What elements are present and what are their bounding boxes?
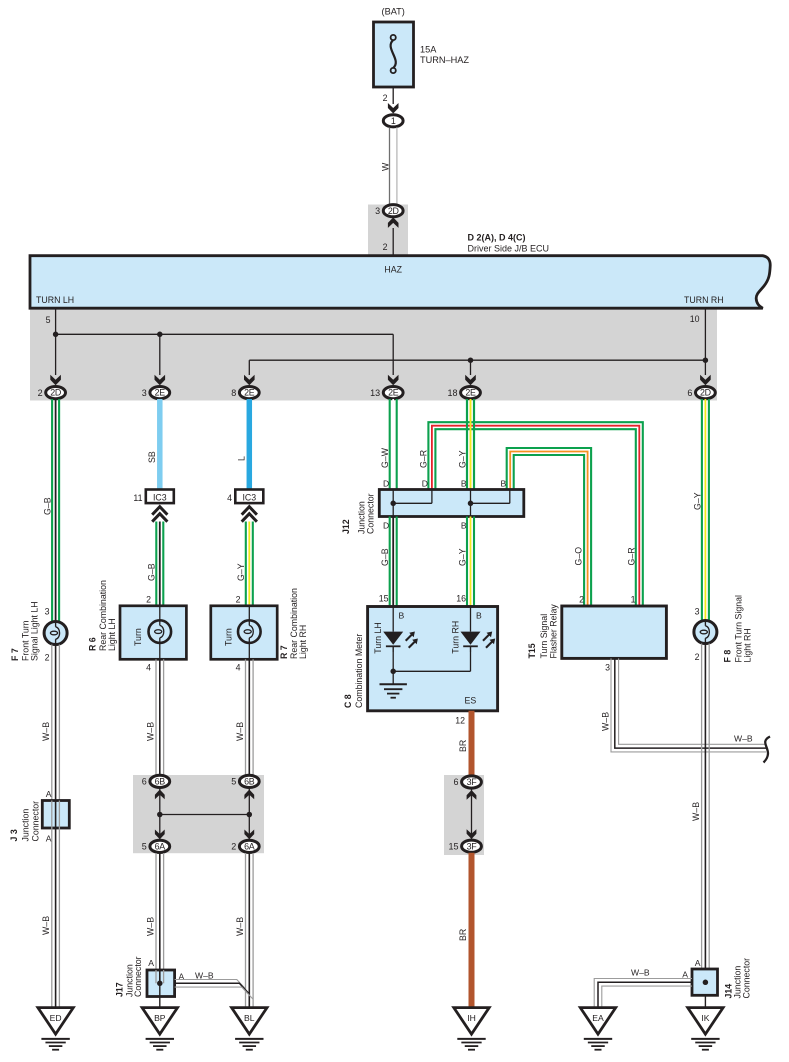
svg-text:Connector: Connector — [30, 801, 40, 842]
svg-text:W–B: W–B — [146, 722, 156, 741]
pin 10 label (TURN RH) — [690, 314, 700, 324]
svg-text:2E: 2E — [465, 388, 476, 398]
wire W-B (6A to J17) — [156, 853, 164, 970]
arrow into connector row — [155, 375, 166, 386]
svg-text:Light LH: Light LH — [107, 618, 117, 651]
connector oval 2D (pin 3) — [375, 205, 403, 217]
wire W (connector 1 to 2D) — [390, 127, 397, 204]
junction connector J14 box — [692, 969, 718, 995]
svg-text:11: 11 — [133, 493, 142, 503]
J12 designator — [341, 493, 376, 534]
wire G-Y (col5 upper) — [467, 399, 474, 490]
connector oval 2E (pin 3) — [142, 387, 170, 399]
svg-text:G–Y: G–Y — [236, 563, 246, 581]
wire 3F-3F — [471, 789, 473, 840]
svg-text:ED: ED — [50, 1013, 62, 1023]
svg-text:2D: 2D — [50, 388, 61, 398]
svg-text:2D: 2D — [388, 206, 399, 216]
wire label G-R (upper) — [419, 450, 429, 468]
svg-text:IH: IH — [467, 1013, 476, 1023]
wire W-B into J17 — [156, 970, 164, 983]
svg-text:TURN LH: TURN LH — [36, 295, 74, 305]
wire G-Y (col3 lower) — [246, 522, 253, 607]
wire TURN LH pin 5 down — [55, 308, 57, 334]
connector oval 3F (pin 6) — [453, 776, 481, 788]
svg-text:6A: 6A — [244, 842, 255, 852]
pin 11 label — [133, 493, 142, 503]
F7 designator — [10, 601, 40, 661]
gray panel (2D connector) — [368, 205, 408, 256]
wire label W-B (relay vertical) — [601, 712, 611, 731]
wire TURN LH horizontal bus — [56, 333, 394, 335]
J3 designator — [9, 801, 40, 842]
gray panel (6B/6A connectors) — [133, 775, 264, 853]
gray band (J/B internal wiring) — [30, 308, 717, 401]
svg-text:10: 10 — [690, 314, 700, 324]
label Turn LH — [373, 622, 383, 653]
pin 4 label (R6) — [146, 663, 151, 673]
svg-text:BR: BR — [458, 740, 468, 752]
wire W-B (J14 to EA) — [594, 979, 692, 1008]
junction connector J3 box — [42, 801, 69, 829]
wire branch to 2E (col5) — [470, 360, 472, 375]
svg-text:2E: 2E — [244, 388, 255, 398]
J17 internal node — [157, 981, 163, 987]
svg-text:Light RH: Light RH — [743, 628, 753, 662]
svg-text:R 6: R 6 — [88, 637, 98, 651]
svg-text:6: 6 — [687, 388, 692, 398]
C8 internal node — [390, 669, 396, 675]
wire W-B (R6 to 6B) — [156, 659, 164, 775]
ground EA — [580, 1008, 615, 1050]
J14 designator — [724, 958, 752, 999]
svg-text:3: 3 — [45, 607, 50, 617]
svg-text:4: 4 — [146, 663, 151, 673]
svg-text:A: A — [148, 958, 154, 968]
svg-text:D: D — [383, 479, 389, 489]
connector oval 6B (pin 6) — [142, 775, 170, 787]
svg-text:R 7: R 7 — [279, 645, 289, 659]
svg-text:G–R: G–R — [419, 450, 429, 468]
wire label G-Y (col5 lower) — [458, 548, 468, 566]
R7 bulb Turn — [238, 606, 261, 660]
wire SB (col2) — [157, 399, 163, 490]
svg-text:G–W: G–W — [380, 447, 390, 468]
svg-text:IC3: IC3 — [153, 492, 167, 502]
svg-text:12: 12 — [455, 716, 465, 726]
connector IC3 (pin 11) — [146, 490, 174, 504]
label ES — [465, 696, 477, 706]
pin A label (J3 bottom) — [46, 834, 52, 844]
svg-text:6B: 6B — [155, 777, 166, 787]
J12 internal node D — [390, 501, 396, 507]
svg-text:6B: 6B — [244, 777, 255, 787]
wire W-B (6A to BL) — [246, 853, 254, 1008]
ground BP — [142, 1008, 177, 1050]
wire 2D to J/B box — [392, 228, 394, 256]
svg-text:C 8: C 8 — [343, 694, 353, 708]
arrow up into 6B (right) — [244, 790, 254, 800]
ground ED — [38, 1008, 73, 1050]
junction connector J12 box — [379, 490, 524, 517]
wire W-B (J3 through to ED) — [52, 801, 60, 1008]
svg-text:F 8: F 8 — [723, 650, 733, 663]
connector IC3 (pin 4) — [235, 490, 263, 504]
svg-text:6: 6 — [142, 777, 147, 787]
J12 internal wire B-B — [471, 490, 510, 517]
gray panel (3F connectors) — [444, 775, 484, 855]
svg-text:B: B — [500, 479, 506, 489]
wire G-W (col4) — [390, 399, 397, 490]
J12 pin B label (top1) — [461, 479, 467, 489]
label Turn RH — [450, 621, 460, 654]
wire G-R loop (relay pin1 to J12 pin D) — [428, 422, 642, 606]
arrow into connector row — [388, 375, 399, 386]
connector oval 6A (pin 5) — [142, 840, 170, 852]
svg-text:15: 15 — [379, 594, 389, 604]
pin 2 label (R7) — [236, 595, 241, 605]
J12 internal wire D-D — [393, 490, 432, 517]
pin 2 label (fuse) — [383, 93, 388, 103]
wire label G-R (lower) — [627, 547, 637, 565]
node crossbar left — [157, 812, 163, 818]
pin 3 label (relay) — [605, 663, 610, 673]
arrow up into 6B (left) — [155, 790, 165, 800]
svg-text:Turn: Turn — [133, 628, 143, 646]
svg-text:W–B: W–B — [691, 802, 701, 821]
svg-text:J12: J12 — [341, 519, 351, 534]
svg-text:Turn RH: Turn RH — [450, 621, 460, 654]
svg-text:W–B: W–B — [601, 712, 611, 731]
wire label W-B (break) — [734, 734, 753, 744]
wire W-B (F8 to J14) — [702, 644, 710, 970]
connector oval 6B (pin 5) — [231, 775, 259, 787]
pin 16 label — [456, 594, 466, 604]
wire label W-B (R6 upper) — [146, 722, 156, 741]
ground BL — [232, 1008, 267, 1050]
wire W-B (relay pin3 to break) — [611, 658, 766, 752]
svg-text:IC3: IC3 — [242, 492, 256, 502]
wire label W-B (col3 lower) — [235, 917, 245, 936]
bulb F7 Front Turn Signal Light LH — [44, 622, 67, 645]
junction connector J17 box — [147, 970, 175, 997]
wire label W-B (F8) — [691, 802, 701, 821]
wire G-Y (col6) — [702, 399, 709, 620]
J12 pin D label (top2) — [422, 479, 428, 489]
svg-text:TURN–HAZ: TURN–HAZ — [420, 55, 469, 65]
svg-text:B: B — [399, 611, 405, 621]
svg-text:W–B: W–B — [235, 917, 245, 936]
svg-text:15A: 15A — [420, 45, 437, 55]
pin 2 label (F7) — [45, 653, 50, 663]
svg-text:L: L — [237, 456, 247, 461]
svg-text:SB: SB — [147, 451, 157, 463]
svg-text:HAZ: HAZ — [384, 265, 402, 275]
svg-text:W–B: W–B — [41, 722, 51, 741]
svg-text:F 7: F 7 — [10, 648, 20, 661]
svg-text:5: 5 — [142, 842, 147, 852]
svg-text:2E: 2E — [155, 388, 166, 398]
node TURN RH bus dot 1 — [703, 357, 709, 363]
LED Turn RH — [461, 607, 496, 653]
wire 6B-6A crossbar — [160, 814, 250, 816]
svg-text:2E: 2E — [388, 388, 399, 398]
connector oval 2E (pin 13) — [370, 387, 403, 399]
pin A label (J3 top) — [46, 789, 52, 799]
svg-text:G–B: G–B — [380, 548, 390, 566]
pin 12 label — [455, 716, 465, 726]
wire label W-B (F7 upper) — [41, 722, 51, 741]
svg-text:J 3: J 3 — [9, 829, 19, 841]
svg-text:1: 1 — [631, 595, 636, 605]
arrow up into 2D — [388, 217, 399, 228]
wire label G-Y (col6) — [693, 492, 703, 510]
svg-text:G–Y: G–Y — [693, 492, 703, 510]
connector oval 1 — [383, 115, 403, 127]
C8 pin B label (LH) — [399, 611, 405, 621]
svg-text:W–B: W–B — [734, 734, 753, 744]
wire G-Y (col5 upper, over loop) — [467, 399, 474, 490]
connector oval 3F (pin 15) — [448, 840, 481, 852]
wire label W-B (F7 lower) — [41, 916, 51, 935]
svg-text:IK: IK — [701, 1013, 709, 1023]
label Turn (R7) — [224, 628, 234, 646]
label TURN RH — [684, 295, 724, 305]
svg-text:Connector: Connector — [742, 958, 752, 999]
svg-text:W–B: W–B — [235, 722, 245, 741]
F8 designator — [723, 595, 753, 663]
J/B ECU box (HAZ, TURN LH, TURN RH) — [30, 256, 770, 309]
connector oval 2E (pin 8) — [231, 387, 259, 399]
svg-text:6A: 6A — [155, 842, 166, 852]
node crossbar right — [247, 812, 253, 818]
arrow down into 3F — [467, 829, 477, 839]
wire label BR (lower) — [458, 929, 468, 941]
svg-text:Connector: Connector — [366, 493, 376, 534]
R6 bulb Turn — [149, 606, 172, 660]
arrow into connector row — [244, 375, 255, 386]
wire label W-B (R7 upper) — [235, 722, 245, 741]
wire branch to 2E (col2) — [159, 334, 161, 375]
pin 4 label (R7) — [236, 663, 241, 673]
svg-text:BL: BL — [244, 1013, 255, 1023]
wire label W-B (col2 lower) — [146, 917, 156, 936]
node TURN LH bus dot 1 — [53, 332, 59, 338]
svg-text:8: 8 — [231, 388, 236, 398]
fuse 15A TURN-HAZ box — [374, 22, 414, 87]
node TURN LH bus dot 2 — [157, 332, 163, 338]
label Turn (R6) — [133, 628, 143, 646]
svg-text:4: 4 — [236, 663, 241, 673]
pin 3 label (F8) — [695, 607, 700, 617]
svg-text:(BAT): (BAT) — [382, 7, 405, 17]
svg-text:4: 4 — [227, 493, 232, 503]
ground IH — [454, 1008, 489, 1050]
svg-text:BP: BP — [154, 1013, 166, 1023]
connector oval 2E (pin 18) — [447, 387, 480, 399]
bulb F8 Front Turn Signal Light RH — [694, 621, 717, 644]
ground IK — [688, 1008, 723, 1050]
wire label G-W — [380, 447, 390, 468]
wire label W — [380, 162, 390, 171]
svg-text:D: D — [383, 521, 389, 531]
double chevron into IC3 (left) — [152, 507, 167, 522]
wire label BR (upper) — [458, 740, 468, 752]
pin 3 label (F7) — [45, 607, 50, 617]
wire TURN RH pin 10 down — [704, 308, 706, 375]
wire label L — [237, 456, 247, 461]
wire label G-B (col1) — [43, 497, 53, 515]
wire label G-B (col2) — [147, 563, 157, 581]
svg-text:2: 2 — [146, 595, 151, 605]
svg-text:A: A — [46, 789, 52, 799]
wire BR (C8 pin12 to 3F) — [469, 711, 475, 776]
arrow into connector row — [700, 375, 711, 386]
pin A label (J17 top) — [148, 958, 154, 968]
wire G-B (col2 lower) — [156, 522, 163, 607]
svg-text:Turn: Turn — [224, 628, 234, 646]
svg-text:W–B: W–B — [631, 968, 650, 978]
wire label G-O — [574, 547, 584, 566]
arrow into connector 1 — [388, 103, 399, 114]
svg-text:BR: BR — [458, 929, 468, 941]
wire label G-B (col4) — [380, 548, 390, 566]
pin A label (J14 left) — [682, 970, 688, 980]
wire label W-B (J17 branch) — [195, 971, 214, 981]
svg-text:W–B: W–B — [146, 917, 156, 936]
fuse element symbol — [391, 35, 396, 73]
T15 designator — [527, 604, 559, 659]
svg-text:18: 18 — [447, 388, 457, 398]
wire G-B (col1) — [52, 399, 59, 622]
svg-text:2: 2 — [383, 242, 388, 252]
wire branch to 2E (col3) — [248, 360, 250, 375]
R7 designator — [279, 588, 308, 659]
label TURN LH — [36, 295, 74, 305]
turn signal flasher relay T15 box — [562, 606, 667, 658]
svg-text:Connector: Connector — [133, 956, 143, 997]
wire BR (3F to IH) — [469, 853, 475, 1008]
node TURN RH bus dot 2 — [468, 357, 474, 363]
svg-text:2: 2 — [38, 388, 43, 398]
svg-text:3F: 3F — [467, 841, 478, 851]
svg-text:B: B — [476, 611, 482, 621]
svg-text:16: 16 — [456, 594, 466, 604]
svg-text:3: 3 — [375, 206, 380, 216]
LED Turn LH — [383, 607, 418, 653]
J12 pin B label (bottom) — [461, 521, 467, 531]
wire 6B-6A (right) — [248, 788, 250, 840]
wire J17 to BP — [159, 983, 161, 1007]
svg-text:3: 3 — [605, 663, 610, 673]
pin 1 label (relay) — [631, 595, 636, 605]
wire label SB — [147, 451, 157, 463]
arrow down into 6A (left) — [155, 830, 165, 840]
wire label G-Y (col3) — [236, 563, 246, 581]
svg-text:3: 3 — [142, 388, 147, 398]
pin 2 label (R6) — [146, 595, 151, 605]
combination meter C8 box — [368, 607, 498, 711]
svg-text:2D: 2D — [700, 388, 711, 398]
C8 internal wire to RH — [393, 652, 470, 671]
svg-text:G–B: G–B — [43, 497, 53, 515]
svg-text:Driver Side J/B ECU: Driver Side J/B ECU — [468, 244, 550, 254]
svg-text:A: A — [46, 834, 52, 844]
svg-text:3: 3 — [695, 607, 700, 617]
pin A label (J17 right) — [179, 972, 185, 982]
wire L (col3) — [247, 399, 253, 490]
double chevron into IC3 (right) — [242, 507, 257, 522]
pin 15 label — [379, 594, 389, 604]
svg-text:W: W — [380, 162, 390, 171]
svg-text:G–O: G–O — [574, 547, 584, 566]
svg-text:G–Y: G–Y — [458, 548, 468, 566]
svg-text:1: 1 — [391, 116, 396, 126]
svg-text:Junction: Junction — [21, 809, 31, 842]
svg-text:D 2(A), D 4(C): D 2(A), D 4(C) — [468, 233, 526, 243]
pin 2 label (relay) — [579, 595, 584, 605]
connector oval 6A (pin 2) — [231, 840, 259, 852]
connector oval 2D (pin 6) — [687, 387, 715, 399]
svg-text:5: 5 — [231, 777, 236, 787]
svg-text:Turn Signal: Turn Signal — [539, 614, 549, 659]
svg-text:2: 2 — [45, 653, 50, 663]
svg-text:2: 2 — [695, 652, 700, 662]
arrow up into 3F — [467, 790, 477, 800]
pin A label (J14 top) — [695, 958, 701, 968]
J12 pin B label (top2) — [500, 479, 506, 489]
pin 4 label — [227, 493, 232, 503]
label D 2(A), D 4(C) — [468, 233, 526, 243]
svg-text:TURN RH: TURN RH — [684, 295, 724, 305]
wire W-B (J17 to BL wire) — [175, 980, 254, 1000]
wire branch to 2E (col4) — [392, 334, 394, 375]
label Driver Side J/B ECU — [468, 244, 550, 254]
J17 designator — [115, 956, 144, 997]
svg-text:Light RH: Light RH — [298, 625, 308, 659]
wire W-B (R7 to 6B) — [246, 659, 254, 775]
label HAZ — [384, 265, 402, 275]
wire 6B-6A (left) — [159, 788, 161, 840]
svg-text:ES: ES — [465, 696, 477, 706]
fuse label (BAT) — [382, 7, 405, 17]
J14 internal node — [703, 980, 709, 986]
arrow into connector row — [465, 375, 476, 386]
pin 2 label (J/B HAZ) — [383, 242, 388, 252]
wire label W-B (J14 branch) — [631, 968, 650, 978]
svg-text:2: 2 — [236, 595, 241, 605]
svg-text:Combination Meter: Combination Meter — [354, 634, 364, 708]
svg-text:D: D — [422, 479, 428, 489]
wire break symbol — [764, 737, 771, 763]
wire branch to 2D (col1) — [55, 334, 57, 375]
C8 pin B label (RH) — [476, 611, 482, 621]
wire label G-Y (col5) — [458, 450, 468, 468]
connector oval 2D (pin 2) — [38, 387, 66, 399]
svg-text:G–B: G–B — [147, 563, 157, 581]
wire fuse to connector 1 — [392, 87, 394, 104]
svg-text:G–R: G–R — [627, 547, 637, 565]
svg-text:6: 6 — [453, 777, 458, 787]
svg-text:A: A — [695, 958, 701, 968]
svg-text:Turn LH: Turn LH — [373, 622, 383, 653]
C8 ground symbol — [380, 684, 407, 697]
svg-text:13: 13 — [370, 388, 380, 398]
arrow into connector row — [50, 375, 61, 386]
C8 designator — [343, 634, 364, 708]
svg-text:T15: T15 — [527, 643, 537, 658]
wire G-Y (J12 to C8 pin16) — [467, 517, 474, 607]
